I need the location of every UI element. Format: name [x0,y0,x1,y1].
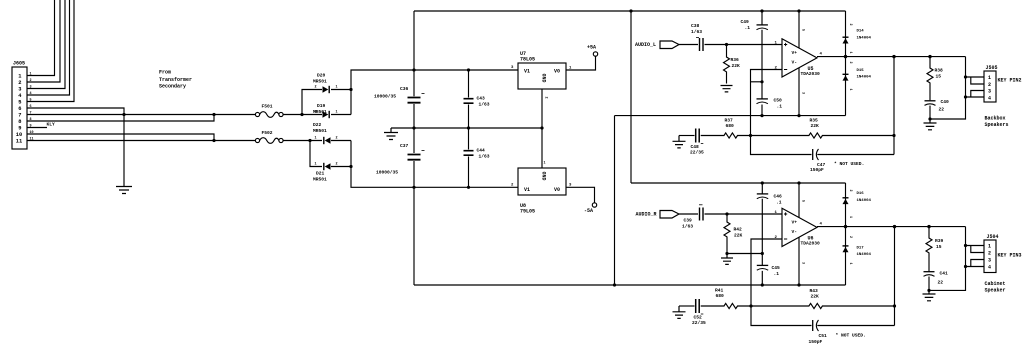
capacitor C49 [757,24,768,26]
wire D22 right leg [331,140,351,142]
svg-text:* NOT USED.: * NOT USED. [834,161,864,167]
capacitor C45 [757,264,768,266]
svg-text:C51: C51 [819,333,828,339]
node plus rail C43 [467,68,470,71]
svg-text:5: 5 [801,200,805,202]
svg-text:KEY PIN3: KEY PIN3 [998,253,1022,259]
capacitor C37 [408,155,421,160]
node feedback junction ch2 [749,304,752,307]
svg-text:10000/35: 10000/35 [376,170,398,176]
wire pin10 [27,134,214,141]
svg-text:2: 2 [315,86,317,90]
wire U6 output rail [817,226,966,228]
node D20 out [349,88,352,91]
capacitor C44 [464,151,474,156]
svg-text:3: 3 [801,92,805,94]
svg-text:V-: V- [792,60,798,66]
svg-text:C38: C38 [691,23,700,29]
wire AUDIO_R to C39 [679,213,698,215]
svg-text:C37: C37 [400,143,409,149]
svg-text:MR501: MR501 [313,177,327,183]
svg-text:F501: F501 [262,104,273,110]
svg-text:.1: .1 [777,104,783,110]
svg-text:TDA2030: TDA2030 [801,71,821,77]
wire F502 to bridge [283,140,322,142]
svg-text:78L05: 78L05 [520,57,535,63]
node gnd rail reg [540,126,543,129]
node J504 pin4 [964,265,967,268]
wire D21 left leg [310,141,322,167]
svg-text:150pF: 150pF [809,339,823,345]
wire ch2 plus feed vertical [630,11,632,183]
svg-text:C52: C52 [694,315,703,321]
svg-text:D22: D22 [313,122,322,128]
svg-text:22K: 22K [811,123,820,129]
node feedback junction ch1 [749,134,752,137]
svg-text:R39: R39 [935,238,944,244]
node output R38 [928,55,931,58]
node top rail C49 [760,9,763,12]
wire speaker loop ch2 [929,227,966,291]
svg-text:C41: C41 [940,271,949,277]
wire C40 to ground [929,106,931,123]
svg-text:AUDIO_L: AUDIO_L [635,42,656,48]
svg-text:22/35: 22/35 [690,150,704,156]
svg-text:R35: R35 [810,118,819,124]
svg-text:3: 3 [988,258,991,264]
node R36 top [725,43,728,46]
svg-text:GND: GND [541,172,547,181]
wire J505 pin1 [966,76,985,78]
wire plus vertical [351,70,414,115]
node output D16 D17 [844,225,847,228]
node ch2 rail U6 pin5 [797,181,800,184]
svg-text:MR501: MR501 [313,79,327,85]
diode D19 [323,111,329,117]
svg-text:V-: V- [792,229,798,235]
diode D16 [843,197,849,199]
svg-text:Transformer: Transformer [159,77,192,83]
svg-text:2: 2 [18,80,21,86]
node output feedback tap [892,55,895,58]
ground R42 [721,254,733,265]
wire ch2 plus rail [631,182,846,184]
ground connector [116,187,132,194]
svg-text:V1: V1 [524,187,530,193]
node D21 out [349,165,352,168]
svg-text:V1: V1 [524,69,530,75]
node C50 tap [760,80,763,83]
resistor R38 [927,57,933,101]
svg-text:Secondary: Secondary [159,84,186,90]
wire J504 pin4 [966,266,985,268]
svg-text:-5A: -5A [584,208,593,214]
wire C45 tap jog [727,253,762,255]
svg-text:C50: C50 [774,98,783,104]
svg-text:4: 4 [18,93,22,99]
wire D20 right leg [331,89,351,91]
wire C49 C50 column [761,11,763,116]
wire C39 to U6 pin1 [705,213,783,215]
wire C43 vertical [468,70,470,128]
svg-text:6: 6 [18,106,21,112]
capacitor C38 [700,38,704,51]
svg-text:4: 4 [988,95,991,101]
svg-text:J504: J504 [987,234,999,240]
capacitor C50 [757,98,768,100]
wire J504 pin1 [966,245,985,247]
wire to F501 [214,114,255,116]
svg-text:1: 1 [848,52,852,54]
svg-text:Speakers: Speakers [985,122,1009,128]
wire U6 pin3 supply [798,237,800,285]
ground C48 [673,136,686,148]
wire U6 pin5 supply [798,183,800,218]
wire ch1 minus link vertical [614,116,616,285]
svg-text:7: 7 [18,112,21,118]
wire left outer vertical [413,11,415,285]
svg-text:C46: C46 [774,194,783,200]
svg-text:D16: D16 [857,192,865,196]
node bridge in A [300,113,303,116]
svg-text:15: 15 [936,244,942,250]
svg-text:2: 2 [848,24,852,26]
wire pin6 [27,108,124,186]
wire minus vertical [351,141,414,188]
resistor R36 [724,45,730,84]
capacitor C48 [696,129,700,143]
svg-text:5: 5 [18,99,21,105]
connector J505 [984,71,996,102]
svg-text:1N4004: 1N4004 [857,199,872,203]
diode D15 [843,73,849,75]
wire D21 right leg [331,166,351,168]
diode D20 [323,86,329,92]
svg-text:D14: D14 [857,30,865,34]
wire J504 pin3 [971,260,984,267]
diode D22 [325,137,331,143]
wire ch1 minus rail [615,115,846,117]
svg-text:4: 4 [820,53,823,57]
svg-text:R41: R41 [715,288,724,294]
svg-text:1: 1 [544,162,546,166]
svg-text:KEY PIN2: KEY PIN2 [998,78,1022,84]
node minus rail pin3 [797,114,800,117]
svg-text:.1: .1 [745,25,751,31]
svg-text:2: 2 [544,97,548,99]
resistor R43 [751,303,895,308]
wire ground to C48 [679,135,695,137]
svg-text:From: From [159,70,171,76]
connector J504 [984,240,996,273]
node J504 pin1 [964,244,967,247]
svg-text:680: 680 [726,123,735,129]
wire F501 to bridge [283,114,322,116]
diode D17 [843,245,849,247]
node bridge in B [308,139,311,142]
svg-text:22: 22 [938,280,944,286]
svg-text:TDA2030: TDA2030 [801,240,821,246]
svg-text:2: 2 [315,111,317,115]
wire C51 branch [751,306,812,326]
capacitor C46 [757,193,768,195]
svg-text:2: 2 [848,190,852,192]
svg-text:Speaker: Speaker [985,288,1006,294]
node minus rail C44 [467,186,470,189]
input flag AUDIO_L [660,41,679,49]
svg-text:Backbox: Backbox [985,116,1006,122]
diode D14 [843,36,849,38]
wire minus rail [414,186,518,188]
svg-text:79L05: 79L05 [520,209,535,215]
svg-text:10: 10 [16,132,22,138]
wire U5 pin2 feedback [751,70,783,136]
wire U5 pin5 supply [798,11,800,48]
wire pin11 [27,140,214,142]
svg-text:8: 8 [18,119,21,125]
node output feedback tap ch2 [893,225,896,228]
ground speaker return ch2 [923,294,936,301]
svg-text:D20: D20 [317,73,326,79]
node top rail ch2 feed [629,9,632,12]
wire U6 pin2 feedback [751,239,782,306]
svg-text:11: 11 [16,138,22,144]
svg-text:C43: C43 [477,96,486,102]
svg-text:J605: J605 [13,61,25,67]
svg-text:AUDIO_R: AUDIO_R [636,211,657,217]
capacitor C51 [812,320,814,331]
node bottom rail U6 pin3 [797,283,800,286]
wire C44 vertical [468,128,470,187]
wire C38 to U5 pin1 [705,44,783,46]
node C50 bottom rail [760,114,763,117]
wire pin5 [27,0,74,102]
node output D14 D15 [844,55,847,58]
svg-text:D19: D19 [317,103,326,109]
wire pin9 RLY stub [27,127,47,129]
svg-text:* NOT USED.: * NOT USED. [836,333,866,339]
node output R39 [927,225,930,228]
wire D16 D17 column [845,183,847,285]
svg-text:1: 1 [18,73,21,79]
svg-text:1: 1 [848,216,852,218]
node pin7 ground junction [122,113,125,116]
wire AUDIO_L to C38 [679,44,698,46]
wire pin4 [27,0,70,95]
node R42 top [725,212,728,215]
wire C47 branch [751,136,812,155]
svg-text:3: 3 [18,86,21,92]
svg-text:C39: C39 [684,218,693,224]
svg-text:680: 680 [716,293,725,299]
regulator U7 78L05 [518,63,566,89]
svg-text:C40: C40 [941,99,950,105]
wire D19 right leg to plus vertical [331,114,351,116]
svg-text:R37: R37 [725,118,734,124]
svg-text:5: 5 [801,29,805,31]
svg-text:9: 9 [18,125,21,131]
capacitor C36 [408,98,421,103]
wire C51 to feedback vertical [817,325,894,327]
resistor R37 [701,133,751,138]
svg-text:C48: C48 [691,144,700,150]
wire pin8 [27,115,214,122]
svg-text:KLY: KLY [47,122,56,128]
svg-text:C36: C36 [400,86,409,92]
svg-text:1/63: 1/63 [479,102,490,108]
node bottom rail minus link [613,283,616,286]
svg-text:1N4004: 1N4004 [857,76,872,80]
svg-text:1: 1 [988,244,991,250]
svg-text:22: 22 [939,107,945,113]
node pin7 pin8 merge [212,113,215,116]
ground bridge mid [384,128,398,140]
svg-text:15: 15 [936,74,942,80]
svg-text:+5A: +5A [587,45,596,51]
svg-text:10000/35: 10000/35 [374,94,396,100]
wire C47 to feedback vertical [817,154,894,156]
svg-text:C49: C49 [741,19,750,25]
node bottom rail C45 [761,283,764,286]
node plus rail C36 [412,68,415,71]
node top rail U5 pin5 [797,9,800,12]
svg-text:C45: C45 [772,265,781,271]
svg-text:150pF: 150pF [810,167,824,173]
input flag AUDIO_R [660,211,679,219]
svg-text:4: 4 [988,265,991,271]
svg-text:3: 3 [511,66,514,70]
wire U8 out [566,187,595,203]
node R42 bottom [725,252,728,255]
wire U7 out [566,57,596,71]
node R43 output tap [893,304,896,307]
node J505 pin4 [964,95,967,98]
capacitor C41 [924,271,935,273]
wire D14 D15 column [845,11,847,116]
svg-text:2: 2 [848,62,852,64]
wire D20 left leg [302,90,322,115]
node C40 loop [928,117,931,120]
svg-text:V+: V+ [792,220,798,226]
svg-text:1: 1 [315,137,317,141]
svg-text:4: 4 [820,223,823,227]
node R35 output tap [892,134,895,137]
svg-text:R42: R42 [734,227,743,233]
svg-text:D17: D17 [857,247,865,251]
ground R36 [721,86,733,92]
wire U5 pin3 supply [798,68,800,116]
svg-text:V0: V0 [554,69,560,75]
wire J505 pin2 [971,77,984,84]
connector J605 [12,67,27,149]
resistor R35 [751,133,895,138]
svg-text:1: 1 [848,263,852,265]
node minus rail C37 [412,186,415,189]
svg-text:D15: D15 [857,69,865,73]
svg-text:2: 2 [988,82,991,88]
node pin10 pin11 merge [212,139,215,142]
svg-text:F502: F502 [262,130,273,136]
wire C46 C45 column [761,183,763,285]
svg-text:R43: R43 [810,288,819,294]
svg-text:GND: GND [541,74,547,83]
svg-text:22K: 22K [811,294,820,300]
terminal -5A [592,203,596,207]
fuse F502 [255,138,259,142]
op-amp U6 [782,208,817,246]
svg-text:2: 2 [988,251,991,257]
resistor R41 [701,303,751,308]
resistor R42 [724,214,730,254]
svg-text:1: 1 [848,89,852,91]
capacitor C52 [696,299,700,313]
terminal +5A [593,52,597,56]
capacitor C40 [925,100,936,102]
wire U7 U8 gnd vertical [541,89,543,168]
node ground rail C36 [412,126,415,129]
wire plus rail [414,69,518,71]
svg-text:V+: V+ [792,50,798,56]
svg-text:1N4004: 1N4004 [857,253,872,257]
node J505 pin1 [964,75,967,78]
svg-text:Cabinet: Cabinet [985,281,1006,287]
svg-text:.1: .1 [774,271,780,277]
fuse F501 [255,112,259,116]
ground speaker return ch1 [924,123,937,130]
diode D21 [325,163,331,169]
svg-text:3: 3 [801,262,805,264]
wire feedback vertical ch1 [893,57,895,155]
wire ground to C52 [679,305,695,307]
svg-text:1/63: 1/63 [682,224,693,230]
wire feedback vertical ch2 [894,227,896,326]
node C41 loop [927,289,930,292]
wire U5 output rail [817,56,966,58]
resistor R39 [926,227,932,272]
wire pin1 [27,0,55,76]
svg-text:1N4004: 1N4004 [857,37,872,41]
svg-text:22/35: 22/35 [692,320,706,326]
svg-text:1/63: 1/63 [691,29,702,35]
regulator U8 79L05 [518,168,566,195]
node ch2 rail C46 [761,181,764,184]
capacitor C47 [812,149,814,160]
svg-text:J505: J505 [986,65,998,71]
svg-text:C44: C44 [477,148,486,154]
svg-text:R38: R38 [935,68,944,74]
svg-text:3: 3 [988,89,991,95]
wire J505 pin4 [966,96,985,98]
svg-text:2: 2 [848,236,852,238]
wire bottom rail [414,284,846,286]
wire speaker loop ch1 [930,57,966,119]
ground C52 [673,306,686,318]
wire ground rail [391,127,542,129]
wire pin7 [27,114,214,116]
wire to F502 [214,140,255,142]
svg-text:22K: 22K [732,63,741,69]
wire pin2 [27,0,60,82]
capacitor C43 [464,99,474,104]
op-amp U5 [782,39,817,77]
svg-text:1: 1 [315,163,317,167]
node ground rail C44 [467,126,470,129]
svg-text:D21: D21 [316,171,325,177]
wire pin2 tap jog [751,81,763,83]
svg-text:22K: 22K [734,233,743,239]
wire C41 to ground [928,277,930,294]
svg-text:MR501: MR501 [313,128,327,134]
